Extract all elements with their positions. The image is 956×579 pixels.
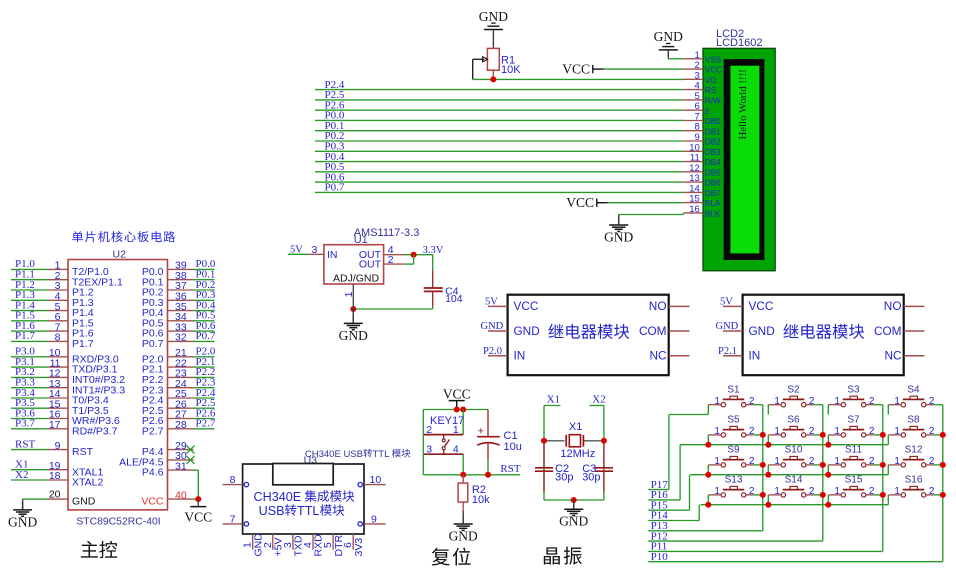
- svg-text:1: 1: [894, 456, 900, 467]
- svg-text:P2.7: P2.7: [142, 425, 164, 437]
- wire net P0.1 to LCD: [315, 120, 683, 132]
- wire keypad row4: [700, 502, 888, 508]
- resistor R2 10k: [458, 475, 490, 511]
- U2 pin 25 P2.4: [142, 387, 216, 407]
- U2 pin 15 P3.5: [11, 397, 109, 417]
- wire net P0.0 to LCD: [315, 110, 683, 122]
- ground symbol U2: [8, 499, 37, 529]
- svg-text:1: 1: [834, 396, 840, 407]
- U2 pin 5 P1.4: [11, 299, 94, 319]
- U2 pin 22 P2.1: [142, 356, 215, 376]
- svg-text:10u: 10u: [504, 441, 522, 453]
- wire net P0.2 to LCD: [315, 130, 683, 142]
- svg-text:1: 1: [894, 426, 900, 437]
- power symbol VCC at U2 pin40: [184, 499, 212, 524]
- wire R1 wiper to LCD VO: [473, 76, 684, 82]
- wire key left side: [422, 410, 424, 475]
- node X1 label: [544, 394, 560, 406]
- push button S5: [708, 415, 755, 437]
- wire keypad column 2: [813, 405, 826, 541]
- potentiometer R1 10K: [473, 48, 522, 79]
- node P14 wire: [648, 505, 699, 522]
- push button S11: [828, 445, 875, 467]
- svg-text:10: 10: [370, 474, 382, 486]
- U2 pin 36 P0.3: [142, 289, 216, 309]
- wire keypad column 3: [873, 405, 886, 551]
- label 复位: [432, 547, 471, 565]
- U2 pin 13 P3.3: [11, 377, 125, 397]
- U2 pin 31 P4.6: [142, 460, 194, 478]
- wire S16 pin1 drop: [887, 495, 889, 505]
- svg-text:5V: 5V: [485, 297, 498, 308]
- wire S4 pin1 drop: [887, 405, 889, 415]
- LCD pin 6 E: [683, 101, 710, 116]
- wire net P0.3 to LCD: [315, 141, 683, 153]
- node P13 wire: [648, 520, 763, 532]
- svg-text:GND: GND: [481, 321, 504, 332]
- svg-text:DB7: DB7: [705, 189, 721, 198]
- U2 pin 2 P1.1: [11, 269, 123, 289]
- U2 pin 23 P2.2: [142, 366, 215, 386]
- svg-text:GND: GND: [716, 321, 739, 332]
- push button S15: [828, 475, 875, 497]
- U1 ADJ/GND pin 1: [343, 284, 355, 309]
- U3 pin 8: [223, 474, 249, 487]
- svg-text:S12: S12: [905, 445, 923, 456]
- U2 pin 12 P3.2: [11, 366, 125, 386]
- svg-text:RST: RST: [500, 463, 520, 475]
- svg-text:DB2: DB2: [705, 138, 721, 147]
- wire S1 pin1 drop: [707, 405, 709, 415]
- ground symbol R2: [449, 511, 478, 543]
- wire S6 pin1 drop: [767, 435, 769, 445]
- svg-text:VCC: VCC: [562, 61, 590, 76]
- svg-text:OUT: OUT: [359, 259, 382, 271]
- LCD pin 16 BLK: [683, 204, 720, 219]
- svg-text:RST: RST: [15, 438, 35, 450]
- svg-text:GND: GND: [604, 229, 633, 244]
- relay 2 pin IN / node P2.1: [718, 346, 743, 357]
- LCD pin 7 DB0: [683, 112, 721, 127]
- svg-text:P4.6: P4.6: [142, 467, 164, 479]
- wire S2 pin1 drop: [767, 405, 769, 415]
- LCD pin 5 R/W: [683, 91, 721, 106]
- LCD pin 11 DB4: [683, 153, 721, 168]
- svg-text:2: 2: [388, 254, 394, 266]
- relay module 1 box: [508, 295, 669, 376]
- svg-text:1: 1: [714, 396, 720, 407]
- svg-text:12MHz: 12MHz: [560, 448, 595, 460]
- svg-text:VCC: VCC: [749, 299, 774, 313]
- wire crystal left: [543, 406, 545, 501]
- U2 pin 35 P0.4: [142, 299, 216, 319]
- wire keypad row3: [690, 472, 888, 478]
- relay 1 pin VCC / node 5V: [485, 297, 508, 308]
- module U3 CH340E title: [304, 449, 411, 467]
- svg-text:DB5: DB5: [705, 168, 721, 177]
- node P17 wire: [648, 415, 669, 491]
- svg-text:RD#/P3.7: RD#/P3.7: [72, 425, 118, 437]
- svg-text:S2: S2: [787, 385, 800, 396]
- wire S14 pin1 drop: [767, 495, 769, 505]
- svg-text:3V3: 3V3: [353, 538, 365, 557]
- svg-text:GND: GND: [449, 528, 478, 543]
- svg-text:X1: X1: [569, 421, 582, 433]
- LCD pin 15 BLA: [683, 194, 720, 209]
- svg-text:S1: S1: [727, 385, 740, 396]
- U2 pin 40 VCC: [141, 489, 201, 507]
- svg-text:DB4: DB4: [705, 158, 721, 167]
- U2 pin 33 P0.6: [142, 320, 216, 340]
- push button KEY17: [424, 415, 464, 456]
- svg-text:3: 3: [312, 244, 318, 256]
- U2 pin 37 P0.2: [142, 279, 215, 299]
- svg-text:31: 31: [175, 460, 187, 472]
- node 5V to U1 pin3: [288, 244, 324, 256]
- svg-text:1: 1: [834, 486, 840, 497]
- U2 pin 39 P0.0: [142, 258, 216, 278]
- push button S10: [768, 445, 815, 467]
- relay 1 pin GND / node GND: [481, 321, 508, 332]
- LCD pin 3 VO: [683, 70, 716, 85]
- U2 pin 30 ALE/P4.5 no-connect: [119, 450, 194, 468]
- wire S5 pin1 drop: [707, 435, 709, 445]
- svg-text:VSS: VSS: [705, 55, 722, 64]
- svg-text:1: 1: [343, 291, 355, 297]
- svg-text:USB: USB: [259, 504, 285, 518]
- svg-text:DB1: DB1: [705, 127, 721, 136]
- wire pin31 to VCC node: [194, 470, 199, 499]
- svg-text:+: +: [478, 426, 484, 438]
- wire net P2.5 to LCD: [315, 89, 683, 101]
- power VCC to LCD pin15: [566, 195, 683, 210]
- LCD pin 4 RS: [683, 81, 716, 96]
- push button S14: [768, 475, 815, 497]
- svg-text:COM: COM: [639, 324, 667, 338]
- svg-text:GND: GND: [8, 514, 37, 529]
- svg-text:S6: S6: [787, 415, 800, 426]
- svg-text:1: 1: [834, 456, 840, 467]
- svg-text:S5: S5: [727, 415, 740, 426]
- svg-text:S13: S13: [725, 475, 743, 486]
- U2 pin 34 P0.5: [142, 310, 216, 330]
- wire S15 pin1 drop: [827, 495, 829, 505]
- wire reset bottom / node RST: [423, 463, 521, 478]
- svg-text:TTL: TTL: [373, 449, 390, 460]
- U3 pin 3 TXD: [282, 534, 305, 557]
- svg-text:U2: U2: [113, 248, 127, 260]
- U3 pin 4 RXD: [302, 534, 325, 557]
- relay 2 pin COM: [904, 330, 925, 332]
- svg-text:NC: NC: [884, 349, 902, 363]
- svg-text:BLA: BLA: [705, 199, 721, 208]
- svg-text:X2: X2: [15, 469, 28, 481]
- svg-text:P0.7: P0.7: [325, 182, 345, 194]
- svg-text:COM: COM: [874, 324, 902, 338]
- svg-text:VCC: VCC: [566, 195, 594, 210]
- wire net P0.4 to LCD: [315, 151, 683, 163]
- wire net P2.4 to LCD: [315, 79, 683, 91]
- svg-text:1: 1: [894, 486, 900, 497]
- svg-text:1: 1: [774, 456, 780, 467]
- wire net P0.7 to LCD: [315, 182, 683, 194]
- wire crystal bottom: [544, 499, 604, 501]
- svg-text:VCC: VCC: [705, 66, 722, 75]
- svg-text:S14: S14: [785, 475, 803, 486]
- push button S16: [888, 475, 935, 497]
- svg-text:18: 18: [49, 470, 61, 482]
- relay 2 pin NC: [904, 355, 925, 357]
- U2 pin 7 P1.6: [11, 320, 94, 340]
- svg-text:P2.0: P2.0: [483, 346, 502, 357]
- U2 pin 4 P1.3: [11, 289, 94, 309]
- svg-text:P0.7: P0.7: [196, 330, 216, 342]
- relay 2 pin NO: [904, 305, 925, 307]
- U2 pin 27 P2.6: [142, 407, 216, 427]
- svg-text:GND: GND: [559, 514, 588, 529]
- power VCC to LCD pin2: [562, 61, 683, 76]
- wire net P0.5 to LCD: [315, 161, 683, 173]
- U2 pin 38 P0.1: [142, 269, 215, 289]
- svg-text:1: 1: [834, 426, 840, 437]
- svg-text:R/W: R/W: [705, 97, 721, 106]
- svg-text:P0.7: P0.7: [142, 338, 164, 350]
- capacitor C2 30p: [535, 441, 573, 492]
- svg-text:C1: C1: [504, 430, 518, 442]
- U3 pin 10: [358, 474, 386, 487]
- svg-text:NO: NO: [884, 299, 902, 313]
- svg-text:GND: GND: [654, 29, 683, 44]
- U2 pin 19 XTAL1 node X1: [11, 459, 103, 479]
- LCD pin 13 DB6: [683, 173, 721, 188]
- push button S6: [768, 415, 815, 437]
- U2 pin 17 P3.7: [11, 418, 118, 438]
- wire C4 to U1 ADJ: [350, 306, 432, 312]
- wire S8 pin1 drop: [887, 435, 889, 445]
- LCD pin 2 VCC: [683, 60, 722, 75]
- push button S13: [708, 475, 755, 497]
- svg-text:28: 28: [175, 419, 187, 431]
- svg-text:TTL: TTL: [297, 504, 319, 518]
- relay 2 pin GND / node GND: [716, 321, 743, 332]
- push button S4: [888, 385, 935, 407]
- svg-text:20: 20: [49, 489, 61, 501]
- module U3 CH340E box: [243, 464, 364, 535]
- wire keypad row1: [669, 414, 708, 416]
- node P12 wire: [648, 530, 823, 542]
- svg-text:NC: NC: [649, 349, 667, 363]
- relay 1 pin COM: [669, 330, 690, 332]
- LCD pin 8 DB1: [683, 122, 721, 137]
- U2 pin 14 P3.4: [11, 387, 109, 407]
- LCD pin 10 DB3: [683, 142, 721, 157]
- push button S7: [828, 415, 875, 437]
- wire S12 pin1 drop: [887, 465, 889, 475]
- U2 pin 3 P1.2: [11, 279, 94, 299]
- push button S8: [888, 415, 935, 437]
- capacitor C4 104: [424, 255, 463, 309]
- svg-text:S4: S4: [907, 385, 920, 396]
- svg-text:P3.7: P3.7: [15, 418, 35, 430]
- U1 pin2 OUT wire: [384, 254, 414, 266]
- svg-text:S15: S15: [845, 475, 863, 486]
- svg-text:8: 8: [55, 332, 61, 344]
- svg-text:S8: S8: [907, 415, 920, 426]
- relay module 1 label 继电器模块: [548, 324, 629, 339]
- regulator U1 AMS1117-3.3: [324, 227, 419, 284]
- push button S12: [888, 445, 935, 467]
- node 3.3V: [423, 245, 444, 256]
- svg-text:9: 9: [371, 513, 377, 525]
- U2 pin 20 GND wire: [23, 489, 96, 508]
- push button S2: [768, 385, 815, 407]
- svg-text:DB0: DB0: [705, 117, 721, 126]
- svg-text:8: 8: [230, 474, 236, 486]
- LCD pin 1 VSS: [683, 50, 721, 65]
- U2 pin 29 P4.4 no-connect: [142, 440, 195, 458]
- LCD module LCD2 LCD1602: [703, 28, 775, 271]
- svg-text:IN: IN: [327, 249, 338, 261]
- wire LCD pin16 to ground: [619, 213, 684, 215]
- svg-text:10K: 10K: [501, 64, 521, 76]
- U2 pin 21 P2.0: [142, 346, 216, 366]
- ground symbol U1: [339, 309, 368, 343]
- svg-text:S11: S11: [845, 445, 862, 456]
- svg-text:10k: 10k: [472, 494, 490, 506]
- U3 pin 6 3V3: [342, 534, 365, 557]
- wire S9 pin1 drop: [707, 465, 709, 475]
- svg-text:LCD1602: LCD1602: [716, 37, 762, 49]
- U2 pin 26 P2.5: [142, 397, 216, 417]
- svg-text:9: 9: [55, 440, 61, 452]
- svg-text:104: 104: [445, 293, 463, 305]
- U1 pin4 OUT wire: [384, 244, 433, 258]
- U2 pin 28 P2.7: [142, 418, 216, 438]
- svg-text:GND: GND: [749, 324, 775, 338]
- capacitor C3 30p: [582, 441, 613, 492]
- U3 pin 1 GND: [242, 533, 265, 557]
- svg-text:P1.7: P1.7: [72, 338, 94, 350]
- svg-text:P2.1: P2.1: [718, 346, 737, 357]
- svg-text:Hello World !!!!: Hello World !!!!: [737, 69, 749, 139]
- wire keypad column 4: [933, 405, 946, 562]
- svg-text:BLK: BLK: [705, 210, 721, 219]
- node P15 wire: [648, 475, 689, 512]
- svg-text:KEY17: KEY17: [430, 415, 464, 427]
- svg-text:XTAL2: XTAL2: [72, 477, 103, 489]
- svg-text:IN: IN: [514, 349, 526, 363]
- svg-text:17: 17: [49, 419, 61, 431]
- wire keypad row2: [680, 442, 888, 448]
- relay module 2 label 继电器模块: [783, 324, 864, 339]
- U2 pin 1 P1.0: [11, 258, 109, 278]
- relay 1 pin IN / node P2.0: [483, 346, 508, 357]
- node X2 label: [589, 394, 605, 406]
- svg-text:VO: VO: [705, 76, 717, 85]
- wire S3 pin1 drop: [827, 405, 829, 415]
- relay 1 pin NO: [669, 305, 690, 307]
- svg-text:RS: RS: [705, 86, 717, 95]
- wire S11 pin1 drop: [827, 465, 829, 475]
- node P11 wire: [648, 541, 883, 553]
- svg-text:VCC: VCC: [443, 386, 471, 401]
- label 主控: [81, 541, 117, 558]
- svg-text:ADJ/GND: ADJ/GND: [333, 272, 380, 284]
- svg-text:VCC: VCC: [184, 509, 212, 524]
- svg-text:X2: X2: [592, 394, 605, 406]
- wire net P0.6 to LCD: [315, 171, 683, 183]
- svg-text:GND: GND: [514, 324, 540, 338]
- svg-text:RST: RST: [72, 446, 94, 458]
- svg-text:IN: IN: [749, 349, 761, 363]
- node P16 wire: [648, 445, 680, 501]
- ground symbol LCD pin16: [604, 215, 633, 245]
- LCD pin 14 DB7: [683, 183, 721, 198]
- U2 pin 32 P0.7: [142, 330, 216, 350]
- wire VCC to key top: [423, 407, 488, 413]
- U2 pin 16 P3.6: [11, 407, 120, 427]
- svg-text:1: 1: [774, 486, 780, 497]
- wire crystal right: [603, 406, 605, 501]
- U2 pin 8 P1.7: [11, 330, 94, 350]
- wire key right side: [462, 410, 464, 475]
- U2 pin 11 P3.1: [11, 356, 118, 376]
- U3 pin 5 DTR: [322, 534, 345, 557]
- svg-text:P2.7: P2.7: [196, 418, 216, 430]
- wire S7 pin1 drop: [827, 435, 829, 445]
- svg-text:1: 1: [714, 456, 720, 467]
- push button S3: [828, 385, 875, 407]
- relay module 2 box: [743, 295, 904, 376]
- svg-text:1: 1: [894, 396, 900, 407]
- U3 box chinese text: [285, 490, 354, 518]
- relay 2 pin VCC / node 5V: [720, 297, 743, 308]
- svg-text:CH340E: CH340E: [254, 490, 302, 504]
- svg-text:32: 32: [175, 332, 187, 344]
- U2 pin 10 P3.0: [11, 346, 119, 366]
- U2 pin 9 RST: [11, 438, 94, 458]
- svg-text:1: 1: [714, 426, 720, 437]
- power VCC reset: [443, 386, 471, 409]
- svg-text:GND: GND: [479, 9, 508, 24]
- svg-text:P1.7: P1.7: [15, 330, 35, 342]
- U2 pin 6 P1.5: [11, 310, 94, 330]
- svg-text:3: 3: [426, 443, 432, 455]
- IC U2 STC89C52RC-40I: [68, 248, 168, 527]
- LCD pin 12 DB5: [683, 163, 721, 178]
- svg-text:S16: S16: [905, 475, 923, 486]
- svg-text:X1: X1: [547, 394, 560, 406]
- label 晶振: [544, 547, 582, 565]
- svg-text:1: 1: [774, 426, 780, 437]
- U2 pin 24 P2.3: [142, 377, 216, 397]
- node P10 wire: [648, 551, 943, 563]
- svg-text:S10: S10: [785, 445, 803, 456]
- svg-text:GND: GND: [339, 328, 368, 343]
- svg-text:DB3: DB3: [705, 148, 721, 157]
- svg-text:GND: GND: [72, 496, 96, 508]
- svg-text:VCC: VCC: [141, 496, 164, 508]
- title 单片机核心板电路: [72, 231, 175, 242]
- ground symbol above LCD pin1: [654, 29, 684, 59]
- svg-text:30p: 30p: [582, 472, 600, 484]
- svg-text:NO: NO: [649, 299, 667, 313]
- push button S9: [708, 445, 755, 467]
- svg-text:VCC: VCC: [514, 299, 539, 313]
- svg-text:1: 1: [774, 396, 780, 407]
- svg-text:5V: 5V: [720, 297, 733, 308]
- capacitor C1 10u: [477, 410, 522, 475]
